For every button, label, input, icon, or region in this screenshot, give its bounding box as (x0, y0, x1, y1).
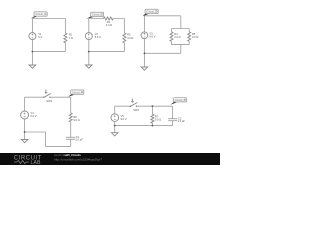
svg-text:9.0 V: 9.0 V (149, 34, 155, 38)
svg-text:SW1: SW1 (46, 99, 52, 103)
svg-text:5.0 V: 5.0 V (95, 35, 101, 39)
svg-text:3.0 Ω: 3.0 Ω (174, 35, 180, 39)
svg-text:1.0 µF: 1.0 µF (75, 138, 83, 142)
svg-text:3.0 Ω: 3.0 Ω (127, 36, 133, 40)
svg-text:Circuit_2: Circuit_2 (92, 13, 103, 17)
svg-text:9.0 V: 9.0 V (121, 117, 127, 121)
svg-text:http://circuitlab.com/c2334bqe: http://circuitlab.com/c2334bqe26yr7 (54, 157, 102, 161)
svg-text:Circuit_4: Circuit_4 (72, 90, 83, 94)
svg-text:3.0 Ω: 3.0 Ω (192, 35, 198, 39)
svg-text:LAB: LAB (31, 160, 42, 165)
svg-text:1.0 µF: 1.0 µF (178, 119, 186, 123)
svg-text:9.0 Ω: 9.0 Ω (155, 117, 161, 121)
svg-text:5.0 V: 5.0 V (30, 114, 36, 118)
svg-text:1 Ω: 1 Ω (69, 36, 73, 40)
svg-text:SW2: SW2 (133, 108, 139, 112)
svg-text:Circuit_1: Circuit_1 (35, 12, 46, 16)
svg-text:Circuit_3: Circuit_3 (146, 10, 157, 14)
svg-text:2.0 Ω: 2.0 Ω (106, 23, 112, 27)
svg-text:Circuit_5: Circuit_5 (175, 98, 186, 102)
svg-text:5 V: 5 V (38, 35, 42, 39)
svg-text:9.0 Ω: 9.0 Ω (73, 118, 79, 122)
